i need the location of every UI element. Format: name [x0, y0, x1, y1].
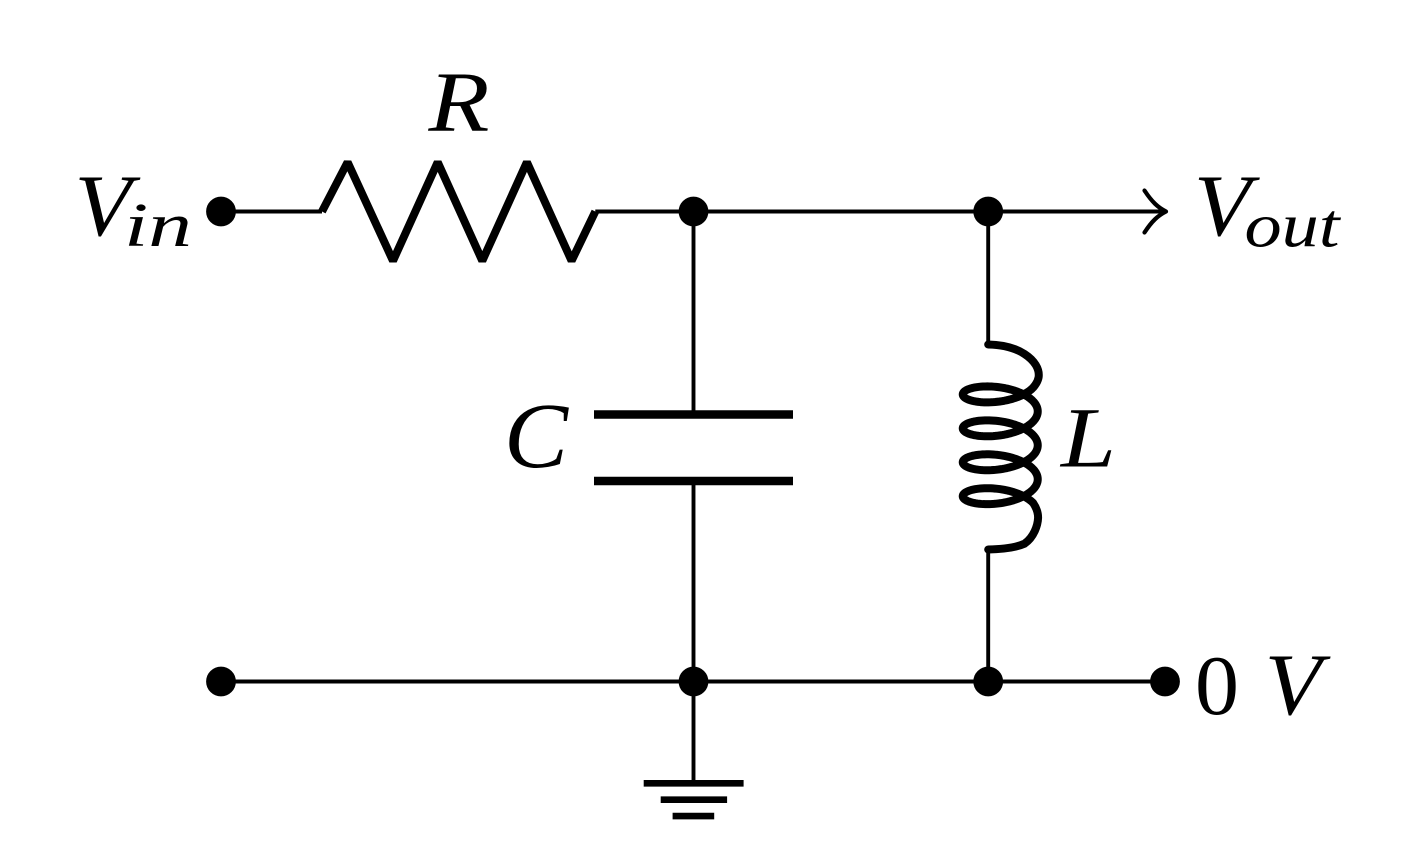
wire: inductor bottom to ground rail	[986, 549, 990, 682]
svg-text:R: R	[427, 54, 489, 150]
svg-text:C: C	[504, 385, 569, 488]
svg-text:out: out	[1245, 192, 1342, 260]
output arrow head	[1145, 191, 1167, 233]
ground bar 2	[661, 796, 727, 803]
node dot: junction A (R/C/out)	[679, 197, 709, 227]
node dot: inductor bottom junction	[973, 667, 1003, 697]
node dot: 0V terminal	[1150, 667, 1180, 697]
wire: Vin terminal to resistor	[221, 210, 322, 214]
ground bar 3	[673, 813, 715, 820]
node dot: bottom-left terminal	[206, 667, 236, 697]
wire: node A down to capacitor top	[692, 212, 696, 415]
wire: capacitor bottom to ground rail	[692, 481, 696, 682]
ground bar 1	[644, 780, 744, 787]
wire: node B down to inductor top	[986, 212, 990, 346]
node dot: Vin terminal	[206, 197, 236, 227]
capacitor C bottom plate	[594, 477, 793, 486]
inductor L coil	[963, 345, 1039, 550]
node dot: junction B (L tap)	[973, 197, 1003, 227]
wire: ground stem	[692, 682, 696, 781]
wire: bottom 0V rail	[221, 680, 1165, 684]
capacitor C top plate	[594, 410, 793, 419]
wire: resistor to output arrow shaft (top rail)	[595, 210, 1163, 214]
resistor R	[322, 162, 595, 261]
node dot: ground junction	[679, 667, 709, 697]
svg-text:0: 0	[1195, 639, 1239, 733]
svg-text:L: L	[1059, 390, 1116, 486]
svg-text:V: V	[1265, 637, 1332, 734]
svg-text:in: in	[124, 192, 192, 260]
